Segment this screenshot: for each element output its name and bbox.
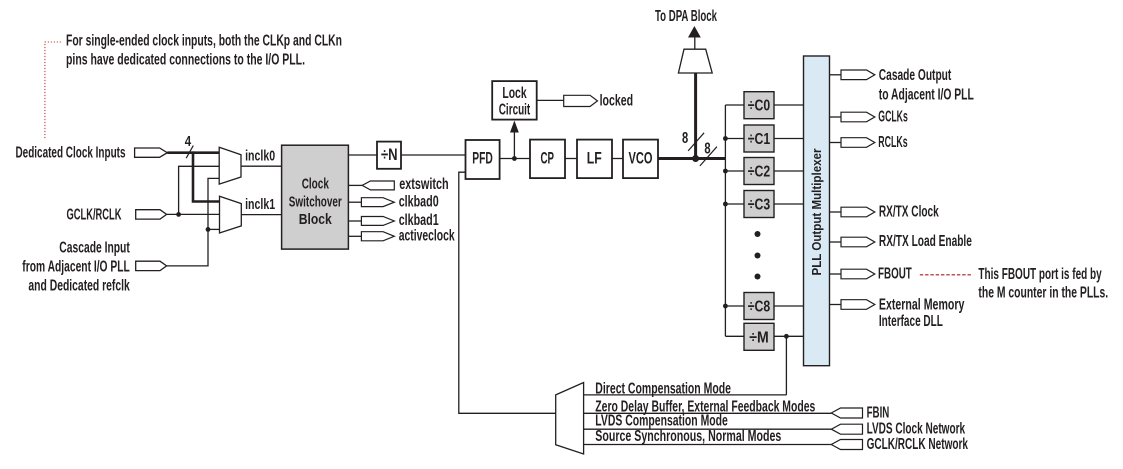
wire divN to PFD: [401, 154, 466, 156]
port FBIN: [831, 408, 862, 418]
DPA buffer trapezoid: [678, 49, 712, 73]
svg-text:to Adjacent I/O PLL: to Adjacent I/O PLL: [879, 87, 974, 104]
bus width 8 slash left: [688, 133, 704, 151]
svg-text:clkbad0: clkbad0: [399, 194, 439, 211]
svg-text:and Dedicated refclk: and Dedicated refclk: [28, 278, 130, 295]
svg-text:This FBOUT port is fed by: This FBOUT port is fed by: [978, 266, 1101, 283]
svg-text:÷C8: ÷C8: [748, 299, 771, 316]
wire PFD feedback down: [459, 172, 556, 413]
svg-text:LF: LF: [587, 149, 602, 167]
wire C8 to mux: [774, 305, 804, 307]
svg-text:RCLKs: RCLKs: [878, 134, 907, 151]
svg-text:PFD: PFD: [472, 150, 493, 168]
counter C2: [744, 158, 774, 185]
port Dedicated Clock Inputs: [135, 148, 168, 157]
wire GCLK/RCLK to mux1: [167, 213, 220, 215]
wire RX/TX Clock stub: [830, 211, 842, 213]
svg-text:÷C2: ÷C2: [748, 164, 771, 181]
counter bus vertical: [724, 105, 726, 336]
svg-text:locked: locked: [600, 92, 634, 109]
svg-text:RX/TX Load Enable: RX/TX Load Enable: [879, 233, 972, 250]
wire bus to C1: [725, 138, 744, 140]
wire Source Synchronous line: [584, 444, 832, 446]
wire up to DPA buffer (thick): [694, 73, 697, 159]
ellipsis dots: [755, 231, 761, 237]
wire RX/TX Load Enable stub: [830, 241, 842, 243]
wire mux0 output inclk0: [241, 165, 282, 167]
wire Direct Compensation Mode: [584, 394, 787, 396]
svg-text:Lock: Lock: [502, 85, 527, 102]
svg-text:Direct Compensation Mode: Direct Compensation Mode: [595, 380, 731, 397]
wire GCLKs stub: [830, 116, 842, 118]
svg-text:FBIN: FBIN: [867, 404, 890, 421]
arrowhead to lock circuit: [510, 121, 519, 133]
port External Memory Interface DLL: [841, 300, 875, 310]
block Clock Switchover Block: [282, 145, 349, 249]
wire PFD to CP: [500, 158, 530, 160]
wire thick branch down to mux1: [193, 151, 220, 201]
feedback mux trapezoid: [556, 383, 584, 455]
svg-text:÷M: ÷M: [749, 329, 769, 346]
bus width 8 slash right: [700, 147, 717, 166]
port GCLK/RCLK Network: [831, 440, 862, 450]
svg-text:GCLK/RCLK Network: GCLK/RCLK Network: [867, 436, 969, 453]
block PLL Output Multiplexer: [804, 56, 830, 366]
port Cascade Input: [136, 261, 167, 270]
wire lock branch with arrow: [513, 131, 515, 159]
svg-text:Circuit: Circuit: [499, 102, 531, 119]
junction cascade branch: [206, 227, 211, 232]
port clkbad0: [361, 198, 394, 207]
wire LF to VCO: [612, 158, 623, 160]
junction lock branch: [512, 156, 517, 161]
port RX/TX Clock: [841, 207, 875, 217]
wire C3 to mux: [774, 203, 804, 205]
svg-text:GCLK/RCLK: GCLK/RCLK: [67, 206, 122, 223]
svg-text:External Memory: External Memory: [879, 296, 965, 313]
port extswitch (input arrow): [362, 181, 394, 190]
block VCO: [623, 140, 658, 179]
wire casade stub: [830, 74, 842, 76]
arrowhead to DPA block: [688, 26, 701, 38]
svg-text:÷N: ÷N: [381, 146, 398, 164]
svg-text:Switchover: Switchover: [289, 194, 342, 211]
port RX/TX Load Enable: [841, 237, 875, 247]
junction M feedback: [784, 334, 789, 339]
svg-text:Block: Block: [299, 211, 333, 228]
svg-text:clkbad1: clkbad1: [399, 212, 439, 229]
svg-text:extswitch: extswitch: [399, 176, 449, 193]
wire C1 to mux: [774, 138, 804, 140]
counter C1: [744, 125, 774, 152]
svg-text:pins have dedicated connection: pins have dedicated connections to the I…: [66, 52, 305, 69]
wire VCO output (thick) to counter bus: [658, 157, 725, 160]
svg-text:Casade Output: Casade Output: [879, 67, 952, 84]
wire C2 to mux: [774, 170, 804, 172]
wire cascade input up to mux0: [167, 178, 220, 266]
wire activeclock stub: [348, 235, 361, 237]
svg-text:CP: CP: [540, 149, 554, 167]
svg-text:inclk1: inclk1: [245, 196, 275, 213]
junction bus C3: [723, 202, 728, 207]
mux1 input multiplexer: [220, 196, 242, 233]
wire buffer to arrow: [694, 36, 696, 49]
wire cascade branch to mux1: [208, 228, 220, 230]
svg-text:÷C3: ÷C3: [748, 197, 771, 214]
wire GCLK branch up to mux0: [179, 166, 220, 214]
wire lock circuit to locked port: [537, 99, 564, 101]
wire mux1 output inclk1: [241, 214, 281, 216]
svg-text:8: 8: [682, 130, 688, 147]
wire Zero Delay Buffer line: [584, 412, 832, 414]
block PFD: [466, 140, 500, 179]
wire M to mux: [774, 335, 804, 337]
wire bus to C3: [725, 203, 744, 205]
svg-text:For single-ended clock inputs,: For single-ended clock inputs, both the …: [66, 33, 342, 50]
svg-text:inclk0: inclk0: [245, 147, 275, 164]
block LF: [577, 140, 612, 179]
note callout dotted leader: [45, 42, 61, 139]
svg-text:To DPA Block: To DPA Block: [655, 8, 717, 25]
bus width 4 slash: [186, 146, 193, 159]
block CP: [530, 140, 565, 179]
wire FBOUT stub: [830, 273, 842, 275]
port locked: [564, 95, 598, 106]
junction bus C1: [723, 136, 728, 141]
svg-text:Source Synchronous, Normal Mod: Source Synchronous, Normal Modes: [595, 428, 781, 445]
svg-text:the M counter in the PLLs.: the M counter in the PLLs.: [978, 285, 1108, 302]
junction bus C8: [723, 304, 728, 309]
svg-text:activeclock: activeclock: [399, 228, 455, 245]
port FBOUT: [841, 269, 875, 279]
wire External Memory stub: [830, 304, 842, 306]
wire clkbad1 stub: [348, 220, 361, 222]
FBOUT dashed leader: [920, 274, 973, 276]
wire bus to M: [725, 335, 744, 337]
wire M feedback down: [785, 336, 787, 395]
svg-text:Dedicated Clock Inputs: Dedicated Clock Inputs: [16, 145, 126, 162]
counter M: [744, 323, 774, 350]
counter C3: [744, 191, 774, 218]
junction VCO/DPA: [692, 155, 699, 162]
wire bus to C8: [725, 305, 744, 307]
port GCLK/RCLK: [136, 210, 167, 219]
svg-text:4: 4: [185, 134, 191, 150]
svg-text:PLL Output Multiplexer: PLL Output Multiplexer: [809, 149, 824, 276]
svg-text:VCO: VCO: [629, 149, 653, 167]
junction bus C2: [723, 169, 728, 174]
divider N counter: [377, 142, 401, 169]
port GCLKs: [841, 112, 875, 122]
wire bus to C0: [725, 104, 744, 106]
wire block to divN: [348, 154, 377, 156]
svg-text:÷C0: ÷C0: [748, 98, 771, 115]
mux0 input multiplexer: [219, 147, 241, 184]
wire dedicated clock to mux0 (thick): [167, 151, 219, 154]
svg-text:Cascade Input: Cascade Input: [59, 239, 130, 256]
port Casade Output: [841, 70, 875, 80]
wire extswitch stub: [348, 184, 362, 186]
svg-text:RX/TX Clock: RX/TX Clock: [879, 204, 939, 221]
counter C0: [744, 92, 774, 119]
svg-text:from Adjacent I/O PLL: from Adjacent I/O PLL: [22, 259, 130, 276]
svg-text:GCLKs: GCLKs: [878, 108, 908, 125]
svg-text:Interface DLL: Interface DLL: [879, 313, 943, 330]
block Lock Circuit: [492, 81, 537, 120]
port LVDS Clock Network: [831, 424, 862, 434]
port RCLKs: [841, 138, 875, 148]
svg-text:÷C1: ÷C1: [748, 131, 771, 148]
counter C8: [744, 293, 774, 320]
junction GCLK branch: [176, 212, 181, 217]
wire bus to C2: [725, 170, 744, 172]
svg-text:LVDS Clock Network: LVDS Clock Network: [867, 420, 966, 437]
wire C0 to mux: [774, 104, 804, 106]
wire RCLKs stub: [830, 142, 842, 144]
port activeclock: [361, 232, 394, 241]
wire LVDS Compensation line: [584, 428, 832, 430]
port clkbad1: [361, 217, 394, 226]
svg-text:Clock: Clock: [302, 176, 330, 193]
wire clkbad0 stub: [348, 201, 361, 203]
wire CP to LF: [565, 158, 577, 160]
svg-text:FBOUT: FBOUT: [878, 266, 912, 283]
